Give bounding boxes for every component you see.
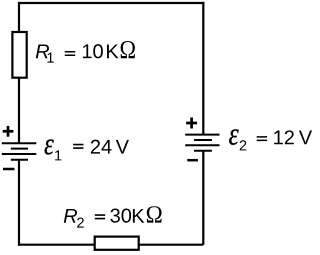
E2 label: subscript 2 (240, 140, 247, 150)
R2 label: value 30 (110, 209, 131, 223)
wire left middle (R1 to battery 1) (18, 78, 20, 144)
R2 label: R italic (64, 209, 77, 223)
E2 label: epsilon (229, 129, 238, 145)
R2 label: unit K (133, 209, 144, 223)
battery E2 plates (185, 135, 219, 151)
wire right lower (battery 2 to bottom) (202, 151, 204, 245)
E1 label: unit V (116, 140, 129, 154)
R1 label: R italic (36, 45, 49, 59)
R2 label: unit Omega (147, 206, 162, 222)
wire bottom right (R2 to right side) (139, 244, 204, 246)
wire top (18, 2, 205, 4)
wire left upper (top node to R1) (18, 2, 20, 33)
R1 label: subscript 1 (47, 53, 53, 63)
E2 label: value 12 (274, 130, 294, 144)
E2 label: equals sign (257, 136, 267, 141)
battery E1 plus sign (3, 126, 14, 137)
wire left lower (battery E1 to bottom node) (18, 160, 20, 246)
E1 label: epsilon (45, 140, 54, 155)
R2 label: equals sign (95, 214, 105, 219)
R1 label: unit K (107, 45, 118, 59)
R1 label: value 10 (83, 44, 103, 58)
battery E2 plus sign (186, 118, 197, 129)
R1 label: unit Omega (121, 41, 135, 58)
E1 label: value 24 (91, 140, 112, 154)
battery E2 minus sign (187, 159, 198, 162)
E2 label: unit V (299, 131, 312, 145)
wire right upper (top node to battery E2) (202, 2, 204, 134)
E1 label: subscript 1 (55, 150, 61, 160)
R2 label: subscript 2 (77, 217, 84, 227)
resistor R1 (12, 32, 26, 78)
resistor R2 (95, 237, 139, 250)
wire bottom left (bottom node to R2) (18, 244, 95, 246)
E1 label: equals sign (73, 144, 83, 149)
R1 label: equals sign (65, 51, 75, 56)
battery E1 plates (2, 143, 37, 160)
battery E1 minus sign (3, 168, 15, 171)
